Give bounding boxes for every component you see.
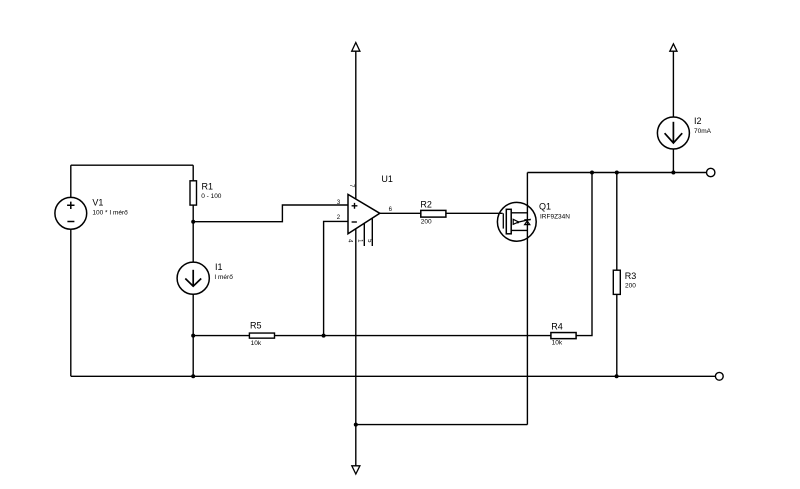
pin 5 stub xyxy=(371,218,373,246)
wire V1 bottom lead xyxy=(70,229,72,376)
wire node to op-amp pin3 (step) xyxy=(193,205,348,222)
junction V- node xyxy=(354,423,358,427)
wire R1 bottom lead xyxy=(192,205,194,222)
wire op-amp pin 4 down xyxy=(355,229,357,425)
svg-text:R4: R4 xyxy=(551,321,563,331)
svg-text:10k: 10k xyxy=(552,340,563,347)
wire I1 node to bottom rail xyxy=(192,336,194,377)
svg-text:I mérő: I mérő xyxy=(214,274,233,281)
svg-text:IRF9Z34N: IRF9Z34N xyxy=(540,213,570,220)
resistor R2 xyxy=(421,210,446,217)
wire R1 top lead xyxy=(192,165,194,181)
wire R3 top lead xyxy=(616,173,618,271)
wire op-amp pin2 to feedback xyxy=(324,221,348,335)
wire Q1 drain-source vertical xyxy=(526,173,528,425)
terminal top right xyxy=(707,168,715,176)
wire R2 to Q1 gate xyxy=(446,212,503,214)
svg-text:R5: R5 xyxy=(250,321,262,331)
svg-text:10k: 10k xyxy=(251,340,262,347)
wire I2 bottom lead xyxy=(672,149,674,173)
svg-text:R3: R3 xyxy=(625,271,637,281)
transistor Q1 xyxy=(497,202,536,241)
resistor R5 xyxy=(249,333,274,338)
junction I1/R5 node xyxy=(191,334,195,338)
junction feedback node xyxy=(322,334,326,338)
terminal bottom right xyxy=(715,372,723,380)
wire I1 bottom lead xyxy=(192,294,194,335)
svg-text:R1: R1 xyxy=(202,181,214,191)
junction R1/I1 node xyxy=(191,220,195,224)
svg-text:200: 200 xyxy=(625,283,636,290)
wire R5 to R4 xyxy=(275,335,551,337)
svg-text:I2: I2 xyxy=(694,116,702,126)
svg-text:200: 200 xyxy=(421,218,432,225)
junction bottom rail left xyxy=(191,374,195,378)
wire top-left horizontal xyxy=(71,164,193,166)
resistor R4 xyxy=(551,333,576,339)
resistor R3 xyxy=(613,270,620,294)
wire V- node to Q1 drain xyxy=(356,424,528,426)
svg-text:70mA: 70mA xyxy=(694,128,712,135)
power arrow V+ (op-amp pin 7) xyxy=(352,43,360,200)
wire R5 line left xyxy=(193,335,249,337)
junction R3 bottom xyxy=(615,374,619,378)
op-amp U1 xyxy=(348,194,380,233)
svg-text:Q1: Q1 xyxy=(539,202,551,212)
wire bottom rail xyxy=(71,375,716,377)
svg-text:100 * I mérő: 100 * I mérő xyxy=(92,210,128,217)
pin 1 stub xyxy=(363,223,365,246)
wire op-amp output xyxy=(380,212,421,214)
wire R4 right to riser xyxy=(576,173,592,336)
resistor R1 xyxy=(190,181,197,205)
wire top rail xyxy=(527,172,706,174)
power arrow V- (down) xyxy=(352,425,360,474)
voltage source V1 xyxy=(55,197,87,229)
svg-text:U1: U1 xyxy=(381,174,393,184)
junction R3 top xyxy=(615,171,619,175)
current source I1 xyxy=(177,262,209,294)
current source I2 xyxy=(657,117,689,149)
svg-text:0 - 100: 0 - 100 xyxy=(201,193,222,200)
wire R3 bottom lead xyxy=(616,294,618,376)
svg-text:R2: R2 xyxy=(420,199,432,209)
svg-text:V1: V1 xyxy=(92,198,103,208)
wire V1 top lead xyxy=(70,165,72,197)
wire I1 top lead xyxy=(192,222,194,262)
power arrow I2 top xyxy=(670,44,677,117)
junction I2 bottom xyxy=(671,171,675,175)
svg-text:I1: I1 xyxy=(215,262,223,272)
junction R4 riser top xyxy=(590,171,594,175)
